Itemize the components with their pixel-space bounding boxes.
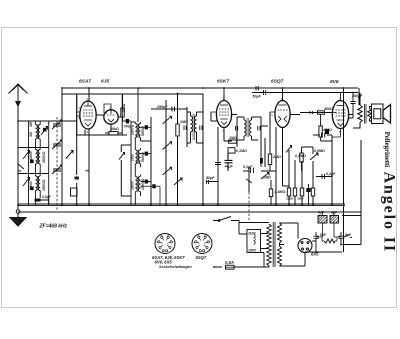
svg-text:250pF: 250pF	[351, 94, 363, 98]
svg-text:300: 300	[29, 131, 33, 137]
svg-text:10000: 10000	[29, 181, 33, 190]
svg-text:40µF: 40µF	[224, 165, 234, 169]
svg-text:1MΩ: 1MΩ	[180, 120, 188, 124]
svg-text:250Ω: 250Ω	[285, 197, 294, 201]
svg-text:0,5µF: 0,5µF	[42, 195, 52, 199]
svg-text:8µF: 8µF	[331, 211, 338, 215]
svg-text:2000: 2000	[131, 154, 135, 162]
svg-text:0,1MΩ: 0,1MΩ	[295, 154, 306, 158]
svg-text:15000Ω: 15000Ω	[42, 179, 46, 191]
svg-text:0,5A: 0,5A	[225, 260, 234, 265]
svg-text:6SA7: 6SA7	[79, 79, 91, 85]
svg-text:10000: 10000	[29, 151, 33, 160]
svg-text:110V: 110V	[248, 232, 256, 236]
svg-text:450Ω: 450Ω	[322, 128, 332, 132]
svg-text:5000Ω: 5000Ω	[141, 126, 145, 136]
svg-text:50µF: 50µF	[206, 176, 215, 180]
svg-text:8µF: 8µF	[345, 233, 352, 237]
svg-text:160V: 160V	[248, 249, 257, 253]
svg-text:20kΩ: 20kΩ	[109, 127, 119, 131]
svg-text:250pF: 250pF	[156, 105, 168, 109]
svg-text:300Ω: 300Ω	[122, 103, 126, 112]
svg-text:0,1µF: 0,1µF	[326, 172, 336, 176]
svg-text:350: 350	[29, 121, 33, 127]
svg-text:50µF: 50µF	[253, 95, 262, 99]
svg-text:Sockelschaltungen: Sockelschaltungen	[159, 265, 193, 269]
svg-text:0,1MΩ: 0,1MΩ	[236, 149, 247, 153]
svg-text:8µF: 8µF	[318, 211, 325, 215]
svg-text:0,1µF: 0,1µF	[243, 165, 253, 169]
svg-text:1MΩ: 1MΩ	[263, 176, 271, 180]
svg-text:6SQ7: 6SQ7	[196, 255, 207, 260]
svg-text:8µF: 8µF	[320, 233, 327, 237]
svg-text:6SQ7: 6SQ7	[271, 79, 284, 85]
svg-text:6J5: 6J5	[101, 79, 109, 85]
svg-text:10000Ω: 10000Ω	[141, 178, 145, 190]
svg-text:6V6, 6X5: 6V6, 6X5	[155, 259, 173, 264]
svg-text:400Ω: 400Ω	[323, 107, 333, 111]
svg-text:700pF: 700pF	[124, 125, 135, 129]
svg-text:6X5: 6X5	[311, 252, 319, 257]
svg-text:5000Ω: 5000Ω	[141, 152, 145, 162]
svg-text:Pellegrinetti: Pellegrinetti	[383, 132, 391, 168]
svg-text:1MΩ: 1MΩ	[297, 197, 304, 201]
svg-text:10000: 10000	[131, 181, 135, 190]
svg-text:6SK7: 6SK7	[217, 79, 229, 85]
svg-text:2MΩ: 2MΩ	[272, 155, 281, 159]
svg-text:0,5MΩ: 0,5MΩ	[275, 190, 286, 194]
svg-text:1MΩ: 1MΩ	[229, 136, 237, 140]
svg-text:Angelo II: Angelo II	[381, 172, 398, 254]
svg-text:6V6: 6V6	[330, 79, 339, 85]
svg-text:0,5MΩ: 0,5MΩ	[314, 149, 325, 153]
svg-text:2000: 2000	[131, 128, 135, 136]
svg-text:15000Ω: 15000Ω	[42, 151, 46, 163]
svg-text:ZF=468 kHz: ZF=468 kHz	[39, 223, 68, 229]
